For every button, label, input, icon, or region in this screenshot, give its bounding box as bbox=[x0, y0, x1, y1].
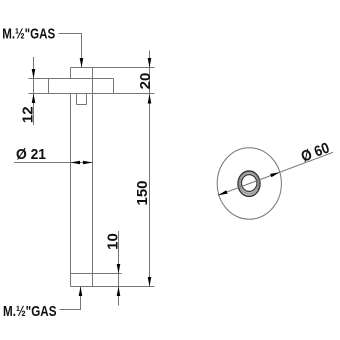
dimension line 12 bbox=[33, 57, 35, 125]
arrow leader bottom pointing up bbox=[79, 287, 83, 297]
dimension line diameter 21 bbox=[14, 162, 93, 164]
inner socket rectangle bottom bbox=[77, 104, 87, 106]
arrow 10 top pointing down bbox=[117, 264, 121, 274]
tube left edge bbox=[70, 94, 72, 287]
flange ellipse top view bbox=[217, 148, 281, 219]
collar ring thread ticks right bbox=[256, 179, 260, 189]
svg-text:12: 12 bbox=[19, 106, 36, 123]
flange left edge bbox=[48, 79, 50, 94]
flange right edge bbox=[113, 79, 115, 94]
arrow 60 upper-right pointing out bbox=[270, 172, 280, 177]
arrow 12 top pointing down bbox=[32, 69, 36, 79]
arrow 20 top pointing down bbox=[148, 58, 152, 68]
dimension line diameter 60 bbox=[218, 152, 333, 195]
arrow 21 left pointing left bbox=[71, 161, 81, 165]
svg-text:10: 10 bbox=[105, 233, 122, 250]
inner socket rectangle left bbox=[76, 94, 78, 105]
arrow leader top pointing down bbox=[80, 58, 84, 68]
groove line + right extension for 10 dim bbox=[71, 273, 122, 275]
svg-text:150: 150 bbox=[134, 180, 151, 205]
collar rim inner line bbox=[240, 173, 259, 194]
dimension line 10 bbox=[118, 231, 120, 306]
arrow 10 bottom pointing up bbox=[117, 287, 121, 297]
inner socket rectangle right bbox=[86, 94, 88, 105]
svg-text:Ø 21: Ø 21 bbox=[16, 146, 46, 163]
leader top M half GAS bbox=[59, 34, 82, 68]
arrow 60 lower-left pointing out bbox=[218, 190, 228, 195]
leader bottom M half GAS bbox=[60, 287, 81, 310]
tube bottom edge + right extension bbox=[71, 286, 155, 288]
dimension line 20 and 150 bbox=[149, 51, 151, 287]
arrow 12 bottom pointing up bbox=[32, 94, 36, 104]
svg-text:M.½"GAS: M.½"GAS bbox=[2, 25, 55, 42]
svg-text:20: 20 bbox=[137, 73, 154, 90]
arrow 21 right pointing right bbox=[83, 161, 93, 165]
connector left edge bbox=[70, 68, 72, 79]
connector top edge + right extension line bbox=[71, 67, 155, 69]
arrow 150 top pointing up bbox=[148, 94, 152, 104]
collar ring band bbox=[238, 171, 260, 196]
collar hole inner ellipse bbox=[242, 175, 257, 192]
flange bottom edge + left and right extensions bbox=[29, 93, 155, 95]
flange top edge + left extension bbox=[29, 78, 114, 80]
connector right edge / tube right edge bbox=[92, 68, 94, 287]
arrow 150 bottom pointing down bbox=[148, 277, 152, 287]
collar ring thread ticks left bbox=[238, 179, 242, 189]
svg-text:M.½"GAS: M.½"GAS bbox=[3, 303, 57, 320]
